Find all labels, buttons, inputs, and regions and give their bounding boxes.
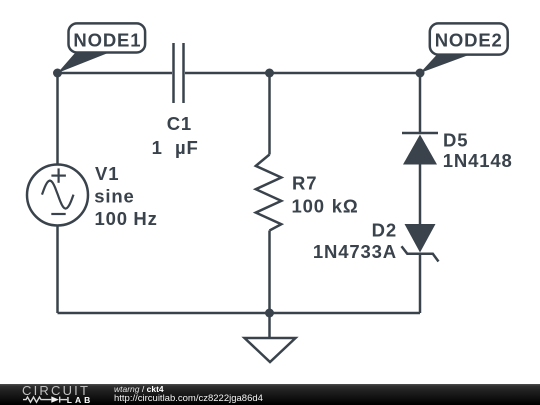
svg-text:NODE1: NODE1	[73, 29, 141, 50]
resistor R7	[256, 155, 281, 231]
svg-text:C1: C1	[167, 113, 192, 134]
junction dot NODE1	[53, 69, 62, 78]
node NODE2 callout	[420, 23, 508, 73]
svg-text:kΩ: kΩ	[332, 195, 359, 216]
wire left side lower (V1 bottom to bottom rail)	[56, 226, 59, 314]
svg-text:R7: R7	[292, 173, 317, 194]
wire C1 to NODE2 through junction	[185, 72, 420, 75]
footer credits text	[114, 385, 164, 394]
svg-text:LAB: LAB	[67, 395, 93, 405]
svg-text:D5: D5	[443, 130, 468, 151]
wire D2 to bottom rail	[419, 254, 422, 313]
diode D5	[402, 133, 438, 165]
wire top-left segment NODE1 to C1	[58, 72, 173, 75]
zener diode D2	[402, 224, 439, 262]
voltage source V1	[27, 165, 88, 226]
svg-text:1: 1	[152, 137, 163, 158]
junction dot bottom rail	[265, 309, 274, 318]
svg-text:Hz: Hz	[133, 208, 157, 229]
CircuitLab logo	[20, 384, 100, 405]
wire middle branch bottom (R7 to bottom rail)	[268, 231, 271, 314]
wire between D5 and D2	[419, 165, 422, 225]
svg-text:D2: D2	[372, 220, 397, 241]
footer bar	[0, 384, 540, 405]
wire middle branch top (junction to R7)	[268, 73, 271, 155]
capacitor C1	[174, 43, 184, 103]
svg-text:100: 100	[292, 195, 325, 216]
svg-text:1N4733A: 1N4733A	[313, 241, 397, 262]
wire left side upper (NODE1 to V1 top)	[56, 73, 59, 165]
node NODE1 callout	[58, 23, 146, 73]
wire bottom rail	[58, 312, 421, 315]
svg-text:1N4148: 1N4148	[443, 150, 513, 171]
ground	[245, 313, 296, 362]
svg-text:µF: µF	[175, 137, 199, 158]
svg-text:sine: sine	[94, 185, 134, 206]
junction dot NODE2	[416, 69, 425, 78]
junction dot at C1/R7 top	[265, 69, 274, 78]
footer url text	[114, 394, 263, 404]
svg-text:NODE2: NODE2	[435, 29, 503, 50]
wire right upper (NODE2 to D5)	[419, 73, 422, 133]
svg-text:100: 100	[95, 208, 128, 229]
svg-text:V1: V1	[95, 163, 119, 184]
